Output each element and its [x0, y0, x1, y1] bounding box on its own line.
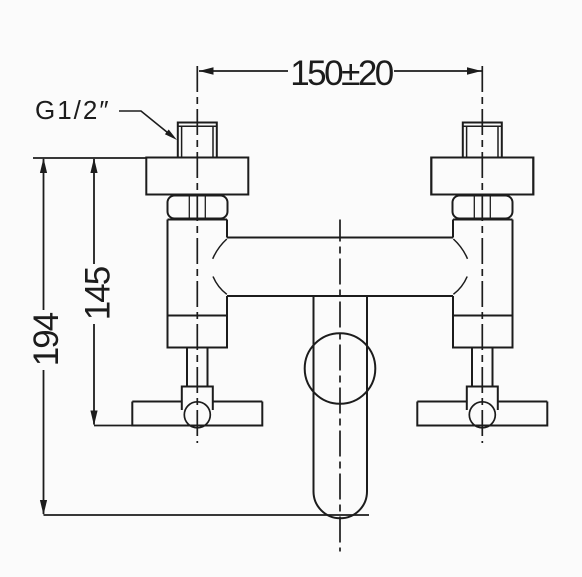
svg-text:150±20: 150±20 — [290, 54, 394, 93]
svg-text:G1/2″: G1/2″ — [35, 95, 111, 125]
svg-text:194: 194 — [27, 312, 66, 366]
svg-text:145: 145 — [79, 267, 118, 320]
